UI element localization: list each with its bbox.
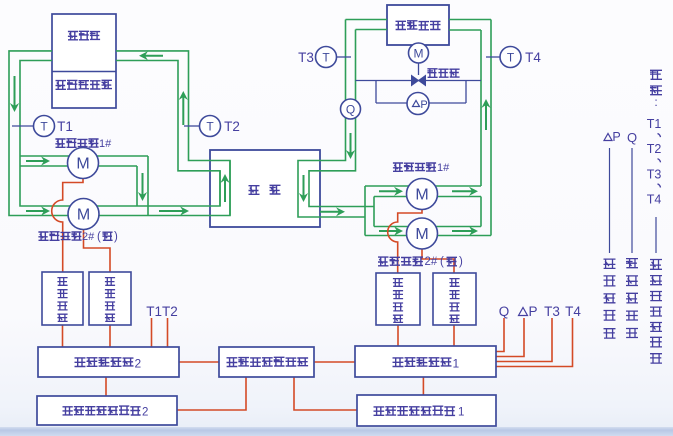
smart saver cabinet 2 box <box>38 347 179 377</box>
wire bypass valve line <box>356 80 482 82</box>
valve stem <box>418 63 420 75</box>
temperature sensor T2 <box>200 116 221 137</box>
legend temperature text <box>650 259 662 363</box>
wire chiller left internal pipe <box>219 171 221 206</box>
chiller main box <box>210 150 320 227</box>
cabinet box 4 <box>433 273 476 325</box>
wire T4 tap <box>486 56 500 58</box>
legend notes column <box>650 70 662 95</box>
wire saver2 to central <box>179 361 219 363</box>
wire T2 tap <box>184 125 200 127</box>
flow arrow chilled branch2 out <box>452 230 472 232</box>
label fan coil <box>396 20 441 30</box>
svg-text:): ) <box>459 256 463 268</box>
power transmitter 1 box <box>357 395 496 426</box>
svg-text:P: P <box>612 130 620 144</box>
temperature sensor T4 <box>500 47 521 68</box>
flow arrow fan coil return up <box>485 105 487 130</box>
svg-text:1: 1 <box>458 407 464 419</box>
flow meter Q <box>341 99 361 119</box>
svg-text:1#: 1# <box>99 138 112 150</box>
svg-text:T1T2: T1T2 <box>146 304 178 319</box>
dP sensor circle <box>407 93 429 115</box>
wire T1 signal <box>151 318 153 347</box>
flow arrow tower riser up <box>182 97 184 125</box>
svg-text:T: T <box>40 120 48 134</box>
central control cabinet box <box>219 347 314 377</box>
wire cooling pump1 branch drop <box>136 166 138 206</box>
cabinet box 1 <box>42 272 83 325</box>
svg-text:T: T <box>206 120 214 134</box>
svg-text:T4: T4 <box>565 304 581 319</box>
svg-text:T1: T1 <box>647 117 662 131</box>
wire transmitter2 to central <box>177 378 246 411</box>
label tower fan <box>56 80 113 90</box>
flow arrow tower return <box>145 55 163 57</box>
svg-text:(: ( <box>97 231 101 243</box>
wire cabinet2 to saver2 <box>109 325 111 347</box>
svg-text:T3: T3 <box>647 167 662 181</box>
svg-text:T2: T2 <box>647 142 662 156</box>
svg-text:T2: T2 <box>224 119 240 134</box>
wire cabinet4 to saver1 <box>453 325 455 346</box>
wire cooling loop inner pipe line <box>20 61 220 207</box>
label cooling pump2 <box>38 231 81 240</box>
flow arrow into pump M2 <box>26 210 44 212</box>
legend temperature line <box>655 217 657 253</box>
wire pump M2 power <box>84 230 111 272</box>
svg-text:1#: 1# <box>437 162 450 174</box>
temperature sensor T3 <box>316 47 337 68</box>
svg-text:2: 2 <box>142 407 148 419</box>
wire chilled pump1 branch <box>365 185 481 187</box>
svg-text:Q: Q <box>499 304 510 319</box>
flow arrow chiller left up <box>224 180 226 202</box>
flow arrow chiller right down <box>303 175 305 196</box>
valve actuator M <box>409 43 429 63</box>
svg-text:2#: 2# <box>425 256 438 268</box>
wire cabinet3 to saver1 <box>397 325 399 346</box>
svg-text:Q: Q <box>346 103 355 117</box>
pump M1 cooling <box>68 148 99 179</box>
svg-text:T4: T4 <box>525 50 541 65</box>
flow arrow pump1 drop <box>142 173 144 195</box>
svg-text:T4: T4 <box>647 193 662 207</box>
svg-text:T1: T1 <box>57 119 73 134</box>
wire dP signal <box>496 318 524 357</box>
cooling tower box <box>52 14 116 108</box>
legend pressure label <box>604 134 612 141</box>
svg-text:T: T <box>507 51 515 65</box>
label chilled pump1 <box>393 163 436 172</box>
label bypass valve <box>427 68 459 77</box>
wire central to saver1 <box>314 361 355 363</box>
wire saver2 to transmitter2 <box>105 377 107 396</box>
label cooling pump1 <box>55 138 98 147</box>
svg-text:T3: T3 <box>298 50 314 65</box>
wire dP sensor loop <box>376 81 466 104</box>
label dP <box>519 308 528 316</box>
svg-text:(: ( <box>440 256 444 268</box>
cabinet box 3 <box>376 273 420 325</box>
wire chilled collector verticals <box>480 30 482 186</box>
svg-text:M: M <box>415 187 428 204</box>
bottom band <box>0 427 673 436</box>
label chiller <box>249 185 260 194</box>
wire cooling loop outer pipe line <box>9 51 230 216</box>
smart saver cabinet 1 box <box>355 346 496 377</box>
fan coil box <box>387 5 449 45</box>
flow arrow into pump M1 <box>26 160 44 162</box>
svg-text:Q: Q <box>627 130 637 145</box>
pump M2 cooling standby <box>68 199 99 230</box>
flow arrow chilled branch2 in <box>379 230 397 232</box>
svg-text:M: M <box>415 226 428 243</box>
wire T4 signal <box>496 318 573 367</box>
svg-text:M: M <box>77 207 90 224</box>
wire T3 tap <box>337 56 352 58</box>
svg-text:P: P <box>420 99 427 111</box>
pump M3 chilled <box>407 179 438 210</box>
wire chilled pump tee verticals <box>364 186 366 236</box>
wire cooling pump1 branch pipe <box>20 155 148 157</box>
wire pump M4 power <box>422 249 454 273</box>
label cooling tower <box>68 31 100 40</box>
label chilled pump2 <box>378 257 423 266</box>
wire chilled pump2 branch <box>374 226 481 228</box>
svg-text:M: M <box>414 47 424 61</box>
cabinet box 2 <box>89 272 131 325</box>
wire Q signal <box>496 318 504 352</box>
temperature sensor T1 <box>34 116 55 137</box>
flow arrow fan coil supply down <box>350 133 352 153</box>
wire cabinet1 to saver2 <box>62 325 64 347</box>
wire fan coil left pipes <box>346 20 388 30</box>
wire saver1 to transmitter1 <box>422 377 424 395</box>
wire fan coil right pipes <box>449 20 491 31</box>
svg-text:2: 2 <box>135 357 142 371</box>
flow arrow chilled branch1 in <box>379 190 397 192</box>
svg-text:T3: T3 <box>544 304 560 319</box>
svg-text:P: P <box>528 304 537 319</box>
svg-text:1: 1 <box>453 357 460 371</box>
svg-text:2#: 2# <box>82 231 95 243</box>
flow arrow main cooling run <box>159 210 183 212</box>
wire chiller right internal pipe <box>298 20 365 218</box>
wire pump M3 power <box>388 210 422 274</box>
wire pump M1 power <box>52 179 83 273</box>
svg-text:): ) <box>114 231 118 243</box>
wire T1 tap <box>12 125 34 127</box>
wire T2 signal <box>167 318 169 347</box>
svg-text:M: M <box>76 156 89 173</box>
wire T3 signal <box>496 318 552 362</box>
wire central to transmitter1 <box>294 378 357 411</box>
flow arrow chilled branch1 out <box>452 190 472 192</box>
svg-text:T: T <box>322 51 330 65</box>
bypass valve body <box>412 76 426 86</box>
svg-text::: : <box>654 95 657 109</box>
flow arrow tower down <box>14 76 16 106</box>
pump M4 chilled standby <box>407 218 438 249</box>
power transmitter 2 box <box>37 396 177 425</box>
flow arrow chiller outlet <box>320 211 339 213</box>
